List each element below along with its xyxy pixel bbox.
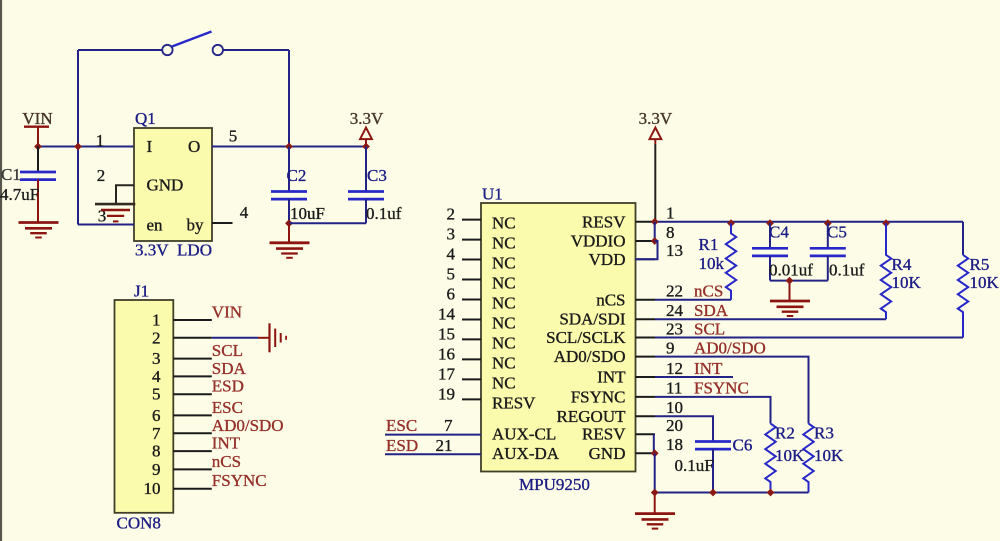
wire pin1 to pin8 vertical <box>654 222 656 241</box>
svg-text:C2: C2 <box>287 166 307 185</box>
J1 pin 1 stub <box>173 319 212 321</box>
ground below C2 <box>288 223 290 243</box>
wire left vertical from switch to en pin <box>77 50 79 225</box>
ground below C1 <box>19 221 59 224</box>
svg-text:SCL/SCLK: SCL/SCLK <box>546 328 626 347</box>
svg-text:NC: NC <box>492 254 516 273</box>
svg-text:INT: INT <box>694 359 723 378</box>
svg-text:10: 10 <box>144 479 161 498</box>
svg-text:23: 23 <box>666 319 683 338</box>
wire INT pin 12 <box>655 376 733 378</box>
svg-text:NC: NC <box>492 314 516 333</box>
wire RESV pin 20 to GND pin 18 <box>653 434 655 453</box>
wire ground rail bottom <box>654 453 656 492</box>
resistor R2 <box>765 424 775 493</box>
resistor R5 <box>958 255 968 338</box>
svg-text:3: 3 <box>152 349 161 368</box>
wire AD0/SDO pin 9 <box>655 357 809 424</box>
svg-text:18: 18 <box>666 435 683 454</box>
svg-text:1: 1 <box>666 204 675 223</box>
svg-text:10: 10 <box>666 398 683 417</box>
svg-text:SCL: SCL <box>212 341 243 360</box>
svg-text:5: 5 <box>229 127 238 146</box>
J1 pin 4 stub <box>173 375 212 377</box>
resistor R4 <box>881 223 891 319</box>
ground below C4 C5 <box>789 281 791 301</box>
svg-text:CON8: CON8 <box>117 514 161 533</box>
svg-text:17: 17 <box>438 364 456 383</box>
U1 left pin 2 (NC) stub <box>462 219 481 221</box>
capacitor C2 <box>288 147 290 192</box>
svg-text:10k: 10k <box>699 254 725 273</box>
capacitor C1 <box>37 147 39 173</box>
regulator Q1 body <box>134 128 212 241</box>
J1 pin 8 stub <box>173 450 212 452</box>
node pin 8 junction <box>651 237 659 245</box>
svg-text:FSYNC: FSYNC <box>212 471 267 490</box>
node ground tap C4 C5 <box>786 277 794 285</box>
svg-text:4: 4 <box>152 367 161 386</box>
J1 pin 5 stub <box>173 393 212 395</box>
svg-text:C5: C5 <box>827 223 847 242</box>
svg-text:NC: NC <box>492 333 516 352</box>
svg-text:7: 7 <box>152 424 161 443</box>
svg-text:0.1uF: 0.1uF <box>675 456 714 475</box>
svg-text:10K: 10K <box>892 273 922 292</box>
svg-text:SCL: SCL <box>694 319 725 338</box>
svg-text:by: by <box>187 216 205 235</box>
resistor R3 <box>803 424 813 493</box>
wire C2 bottom to C3 bottom <box>289 222 366 224</box>
capacitor C5 <box>827 223 829 248</box>
node rail at R2 <box>767 489 775 497</box>
svg-text:NC: NC <box>492 274 516 293</box>
capacitor C6 <box>695 440 731 443</box>
svg-text:19: 19 <box>438 384 455 403</box>
U1 left pin 17 (NC) stub <box>462 378 481 380</box>
svg-text:VDD: VDD <box>589 250 626 269</box>
svg-text:NC: NC <box>492 214 516 233</box>
wire REGOUT pin 10 <box>655 416 713 441</box>
switch S1 <box>162 45 172 55</box>
wire C4 bottom to C5 bottom <box>770 280 828 282</box>
svg-text:C4: C4 <box>769 223 789 242</box>
svg-text:AD0/SDO: AD0/SDO <box>694 338 766 357</box>
node R1 top <box>727 219 735 227</box>
svg-text:13: 13 <box>666 241 683 260</box>
svg-text:J1: J1 <box>134 282 149 301</box>
svg-text:nCS: nCS <box>694 282 723 301</box>
ground rotated at J1 pin 2 <box>268 323 270 352</box>
svg-text:FSYNC: FSYNC <box>571 387 626 406</box>
svg-text:24: 24 <box>666 301 684 320</box>
wire en pin 3 <box>78 224 134 226</box>
svg-text:SDA: SDA <box>694 301 729 320</box>
wire J1 pin 2 to ground <box>212 337 258 339</box>
svg-text:15: 15 <box>438 324 455 343</box>
svg-text:AUX-DA: AUX-DA <box>492 444 560 463</box>
svg-text:NC: NC <box>492 294 516 313</box>
U1 left pin 3 (NC) stub <box>462 239 481 241</box>
svg-text:11: 11 <box>666 379 682 398</box>
svg-text:0.1uf: 0.1uf <box>829 261 865 280</box>
svg-text:2: 2 <box>97 166 106 185</box>
svg-text:SDA: SDA <box>212 359 247 378</box>
node switch-left junction <box>74 143 82 151</box>
svg-text:I: I <box>147 137 153 156</box>
wire switch top left segment <box>78 49 162 51</box>
svg-text:VIN: VIN <box>212 303 242 322</box>
svg-text:10K: 10K <box>775 446 805 465</box>
svg-text:10K: 10K <box>970 273 1000 292</box>
J1 pin 3 stub <box>173 358 212 360</box>
svg-text:AD0/SDO: AD0/SDO <box>554 347 626 366</box>
wire nCS pin 22 <box>655 299 731 301</box>
svg-text:O: O <box>188 137 200 156</box>
svg-text:8: 8 <box>666 223 675 242</box>
svg-text:R1: R1 <box>699 235 719 254</box>
svg-text:10uF: 10uF <box>290 204 325 223</box>
U1 right pin stubs <box>636 221 656 223</box>
svg-text:INT: INT <box>212 434 241 453</box>
svg-text:RESV: RESV <box>582 425 626 444</box>
svg-text:C3: C3 <box>367 166 387 185</box>
svg-text:VDDIO: VDDIO <box>571 232 626 251</box>
svg-text:1: 1 <box>96 131 105 150</box>
wire ESD to AUX-DA pin 21 <box>385 453 481 455</box>
svg-text:RESV: RESV <box>582 212 626 231</box>
node C2 bottom junction <box>285 219 293 227</box>
capacitor C3 <box>365 147 367 192</box>
ic U1 body <box>481 203 636 472</box>
J1 pin 10 stub <box>173 488 212 490</box>
svg-text:ESD: ESD <box>212 377 244 396</box>
svg-text:22: 22 <box>666 282 683 301</box>
svg-text:3.3V LDO: 3.3V LDO <box>135 241 212 260</box>
svg-text:FSYNC: FSYNC <box>694 379 749 398</box>
svg-text:Q1: Q1 <box>135 109 156 128</box>
svg-text:9: 9 <box>152 460 161 479</box>
svg-text:5: 5 <box>152 385 161 404</box>
node rail at C6 <box>709 489 717 497</box>
svg-text:NC: NC <box>492 353 516 372</box>
wire Q1 GND pin 2 <box>116 185 134 204</box>
svg-text:2: 2 <box>152 328 161 347</box>
svg-text:3: 3 <box>447 225 456 244</box>
wire VIN to Q1 pin 1 <box>38 146 134 148</box>
J1 pin 7 stub <box>173 432 212 434</box>
U1 left pin 5 (NC) stub <box>462 279 481 281</box>
node 3.3V junction at pin 1 <box>651 218 659 226</box>
svg-text:AUX-CL: AUX-CL <box>492 425 556 444</box>
ground below U1 <box>654 493 656 514</box>
svg-text:C6: C6 <box>733 436 753 455</box>
svg-text:20: 20 <box>666 416 683 435</box>
wire U1 pin 1 RESV to 3.3V rail <box>655 221 963 223</box>
svg-text:4: 4 <box>447 245 456 264</box>
U1 left pin 16 (NC) stub <box>462 358 481 360</box>
svg-text:nCS: nCS <box>596 290 625 309</box>
connector J1 body <box>115 300 174 513</box>
svg-text:MPU9250: MPU9250 <box>519 475 590 494</box>
wire pin8 to pin13 <box>636 241 658 259</box>
wire Q1 pin 5 output <box>212 146 289 148</box>
svg-text:16: 16 <box>438 344 455 363</box>
capacitor C4 <box>769 223 771 248</box>
svg-text:3.3V: 3.3V <box>350 109 384 128</box>
wire SDA pin 24 <box>655 318 886 320</box>
svg-text:6: 6 <box>152 406 161 425</box>
svg-text:1: 1 <box>152 311 161 330</box>
U1 left pin 4 (NC) stub <box>462 259 481 261</box>
wire switch top right segment <box>223 49 289 51</box>
svg-text:4: 4 <box>240 203 249 222</box>
ground at Q1 pin 2 <box>95 203 135 206</box>
U1 left pin 19 (RESV) stub <box>462 398 481 400</box>
resistor R1 <box>726 223 736 300</box>
svg-text:12: 12 <box>666 359 683 378</box>
svg-text:GND: GND <box>589 444 626 463</box>
svg-text:U1: U1 <box>482 185 503 204</box>
svg-text:AD0/SDO: AD0/SDO <box>212 416 284 435</box>
node C2 top junction <box>285 143 293 151</box>
svg-text:ESC: ESC <box>212 398 243 417</box>
svg-text:R5: R5 <box>970 255 990 274</box>
svg-text:8: 8 <box>152 442 161 461</box>
svg-text:7: 7 <box>444 416 453 435</box>
node GND pin junction <box>651 449 659 457</box>
wire right vertical from switch to C2 node <box>288 50 290 147</box>
svg-text:R4: R4 <box>892 255 912 274</box>
svg-text:3.3V: 3.3V <box>639 109 673 128</box>
svg-text:nCS: nCS <box>212 452 241 471</box>
svg-text:GND: GND <box>147 176 184 195</box>
svg-text:en: en <box>147 216 164 235</box>
wire ESC to AUX-CL pin 7 <box>385 434 481 436</box>
svg-text:10K: 10K <box>814 446 844 465</box>
node VIN junction <box>34 143 42 151</box>
svg-text:5: 5 <box>447 265 456 284</box>
svg-text:SDA/SDI: SDA/SDI <box>559 310 625 329</box>
node C5 top <box>824 219 832 227</box>
svg-text:9: 9 <box>666 338 675 357</box>
svg-text:ESC: ESC <box>386 416 417 435</box>
J1 pin 9 stub <box>173 468 212 470</box>
svg-text:4.7uF: 4.7uF <box>0 185 39 204</box>
pin 4 by stub <box>212 222 233 224</box>
svg-text:R2: R2 <box>775 424 795 443</box>
svg-text:21: 21 <box>436 436 453 455</box>
svg-text:0.01uf: 0.01uf <box>769 261 813 280</box>
node C4 top <box>766 219 774 227</box>
svg-text:2: 2 <box>447 205 456 224</box>
svg-text:VIN: VIN <box>22 109 52 128</box>
wire FSYNC pin 11 <box>655 397 771 424</box>
U1 left pin 14 (NC) stub <box>462 319 481 321</box>
svg-text:ESD: ESD <box>386 436 418 455</box>
wire output node to C3 <box>289 146 366 148</box>
U1 left pin 6 (NC) stub <box>462 299 481 301</box>
node R4 top <box>882 219 890 227</box>
svg-text:NC: NC <box>492 373 516 392</box>
wire SCL pin 23 <box>655 337 963 339</box>
svg-text:INT: INT <box>597 368 626 387</box>
U1 left pin 15 (NC) stub <box>462 338 481 340</box>
svg-text:R3: R3 <box>814 424 834 443</box>
svg-text:RESV: RESV <box>492 393 536 412</box>
node C3 top junction <box>362 143 370 151</box>
J1 pin 6 stub <box>173 414 212 416</box>
svg-text:NC: NC <box>492 234 516 253</box>
wire 3.3V rail corner to R5 <box>962 222 964 255</box>
sheet left border <box>0 0 2 541</box>
svg-text:6: 6 <box>447 285 456 304</box>
svg-text:0.1uf: 0.1uf <box>366 204 402 223</box>
svg-text:REGOUT: REGOUT <box>557 407 627 426</box>
svg-text:14: 14 <box>438 305 456 324</box>
J1 pin 2 stub <box>173 337 212 339</box>
node rail at GND vertical <box>651 489 659 497</box>
svg-text:C1: C1 <box>1 165 21 184</box>
